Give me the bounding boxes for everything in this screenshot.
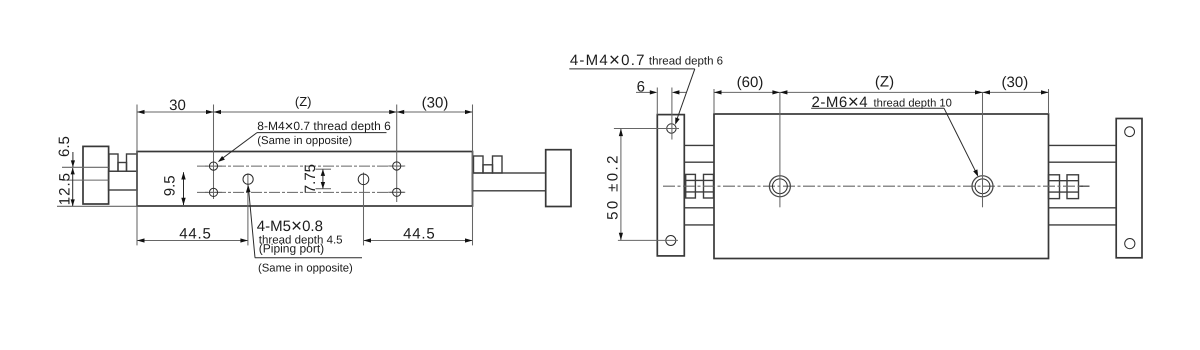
port 2 (358, 174, 369, 185)
svg-text:2-M6×4: 2-M6×4 (812, 92, 869, 113)
arrow 30p left (397, 110, 405, 114)
right nut connector (483, 165, 493, 173)
extension line x=472.5 (472, 105, 474, 246)
arrow Z left (214, 110, 222, 114)
svg-text:(Same in opposite): (Same in opposite) (257, 135, 352, 147)
left gap nut 1 (686, 174, 696, 198)
centerline row 2 (197, 191, 404, 193)
dim line 44.5 right (364, 240, 473, 242)
svg-text:30: 30 (169, 97, 186, 114)
M6 hole 2 outer (972, 176, 993, 197)
extension line x=396.7 (hole column 2) (396, 105, 398, 203)
arrow 30 right (1041, 90, 1049, 94)
dim 9.5 arrow (183, 172, 185, 205)
right gap guide rod bottom (1049, 207, 1117, 209)
arrow Z right (975, 90, 983, 94)
left gap nut chamfer lines (686, 179, 714, 181)
ext line body right (1048, 89, 1050, 114)
dim 6.5 arrow (72, 152, 74, 167)
ext line plate1 left (656, 88, 658, 115)
main centerline (663, 185, 1090, 187)
arrow 30 left (137, 110, 145, 114)
svg-text:44.5: 44.5 (403, 226, 435, 243)
dim 6 arrows (636, 91, 651, 93)
left nut B (127, 154, 138, 171)
port1 extension vertical (247, 173, 249, 245)
plate2 bottom hole (1125, 239, 1135, 249)
hole ticks (205, 165, 222, 167)
left gap nut 2 (704, 174, 714, 198)
label 4-M4 underline (569, 68, 695, 70)
right rod (473, 173, 546, 191)
svg-text:(30): (30) (1002, 74, 1029, 91)
svg-text:6.5: 6.5 (56, 136, 73, 157)
port label leader (249, 189, 256, 258)
M6 hole 2 inner (975, 179, 990, 194)
right end knob (546, 150, 571, 207)
label 8-M4 underline (257, 132, 387, 134)
arrow 30 left (983, 90, 991, 94)
svg-text:50 ±0.2: 50 ±0.2 (605, 153, 622, 220)
cylinder body (side view) (714, 114, 1049, 259)
left end plate (657, 115, 684, 256)
hole1 vertical line (779, 92, 781, 207)
label 2-M6 leader (944, 108, 978, 175)
port 1 (243, 174, 253, 184)
dim 50 ref bottom (618, 239, 678, 241)
label 4-M4 arrowhead (675, 117, 680, 124)
ext line plate1 hole column (671, 88, 673, 140)
svg-text:(30): (30) (422, 95, 449, 112)
right end plate (1116, 119, 1142, 258)
right gap nut chamfer lines (1049, 180, 1079, 182)
left nut A (109, 154, 118, 171)
plate1 top hole (667, 124, 676, 133)
plate1 bottom hole (666, 236, 676, 246)
hole A1 (209, 162, 217, 170)
dim 12.5 arrow (72, 168, 74, 206)
dim line 44.5 left (137, 240, 248, 242)
label 2-M6 arrowhead (973, 169, 978, 176)
svg-text:4-M4×0.7: 4-M4×0.7 (570, 50, 646, 71)
left rod (109, 171, 137, 190)
arrow 30p right (465, 110, 473, 114)
right nut A (474, 156, 484, 173)
arrow 60 right (772, 90, 780, 94)
label 8-M4 arrowhead (218, 156, 225, 162)
dim 7.75 arrow (322, 169, 324, 188)
svg-text:6: 6 (637, 78, 645, 95)
svg-text:44.5: 44.5 (179, 226, 211, 243)
thin lines across left knob (62, 166, 109, 168)
svg-text:(Z): (Z) (875, 74, 894, 91)
hole A2 (209, 188, 217, 196)
right gap guide rod top (1049, 144, 1117, 146)
arrow 60 left (714, 90, 722, 94)
right nut B (493, 156, 503, 173)
svg-text:thread depth 10: thread depth 10 (874, 97, 952, 109)
label 2-M6 underline (811, 107, 944, 109)
svg-text:thread depth 6: thread depth 6 (649, 55, 723, 67)
port2 extension vertical (363, 173, 365, 246)
left gap guide rod top (684, 144, 714, 146)
top dimension line (137, 111, 473, 113)
arrow Z right (389, 110, 397, 114)
port label underline (255, 257, 362, 259)
svg-text:7.75: 7.75 (302, 164, 319, 193)
centerline row 1 (197, 165, 404, 167)
label 8-M4 leader (220, 133, 258, 161)
svg-text:9.5: 9.5 (162, 175, 179, 196)
M6 hole 1 outer (769, 176, 790, 197)
top dimension line (714, 91, 1049, 93)
right gap nut 2 (1067, 175, 1079, 199)
svg-text:(Piping port): (Piping port) (259, 241, 324, 255)
svg-text:(Same in opposite): (Same in opposite) (258, 263, 353, 275)
M6 hole 1 inner (773, 179, 788, 194)
arrow Z left (780, 90, 788, 94)
extension line x=213.5 (hole column 1) (213, 105, 215, 200)
svg-text:(60): (60) (737, 74, 764, 91)
hole B2 (393, 188, 401, 196)
hole B1 (393, 162, 401, 170)
dim 50 ref top (614, 128, 679, 130)
cylinder body (top view) (137, 152, 473, 207)
right gap nut 1 (1049, 175, 1060, 199)
left end knob (83, 146, 109, 204)
dim 7.75 ticks (316, 168, 332, 170)
left gap guide rod bottom (684, 207, 714, 209)
bottom-left extension underline (57, 205, 137, 207)
right rod tail (1079, 185, 1090, 187)
left nut connector (118, 163, 127, 172)
extension line x=137 (136, 105, 138, 246)
dim 50 arrow line (620, 129, 622, 241)
ext line body left (713, 89, 715, 114)
plate2 top hole (1125, 127, 1135, 137)
hole2 vertical line (982, 92, 984, 207)
label 4-M4 leader (677, 69, 695, 121)
svg-text:(Z): (Z) (295, 94, 312, 109)
arrow 30 right (206, 110, 214, 114)
